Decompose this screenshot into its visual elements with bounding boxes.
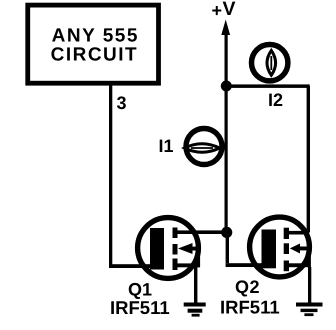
wire: Q1 source down (vertical) [194, 267, 197, 303]
lamp I1 [185, 129, 223, 165]
ground (Q2 source) [296, 303, 323, 317]
wire: branch to I2 (horizontal) [226, 84, 310, 88]
wire: junction down to Q2 gate level (vertical) [226, 232, 229, 263]
svg-text:I1: I1 [159, 136, 174, 156]
wire: +V rail (vertical) [225, 33, 228, 234]
wire: I2 to Q2 drain (vertical right) [307, 86, 310, 233]
node: junction +V rail / I2 branch [221, 81, 232, 92]
wire: 555 pin 3 down (vertical) [109, 83, 112, 268]
svg-text:IRF511: IRF511 [110, 297, 170, 318]
svg-text:ANY 555: ANY 555 [52, 26, 139, 47]
svg-text:Q2: Q2 [235, 277, 260, 297]
transistor Q2 (IRF511 N-channel MOSFET) [250, 217, 311, 277]
wire: Q1 drain to junction (horizontal) [177, 230, 228, 234]
svg-text:V: V [223, 0, 236, 20]
svg-text:I2: I2 [268, 90, 283, 110]
node: junction rail / Q1 drain / Q2 gate [221, 227, 232, 238]
lamp I2 [252, 45, 288, 81]
svg-text:CIRCUIT: CIRCUIT [51, 45, 139, 66]
wire: to Q1 gate (horizontal) [109, 264, 152, 268]
power arrow up [221, 20, 230, 36]
wire: Q2 source down (vertical) [308, 267, 311, 303]
svg-text:+: + [212, 1, 223, 21]
555 block U1 "ANY 555 CIRCUIT" [28, 5, 159, 83]
svg-text:IRF511: IRF511 [220, 297, 280, 318]
transistor Q1 (IRF511 N-channel MOSFET) [138, 218, 200, 279]
ground (Q1 source) [184, 303, 206, 317]
wire: to Q2 gate (horizontal) [226, 263, 262, 267]
svg-text:3: 3 [117, 93, 127, 113]
